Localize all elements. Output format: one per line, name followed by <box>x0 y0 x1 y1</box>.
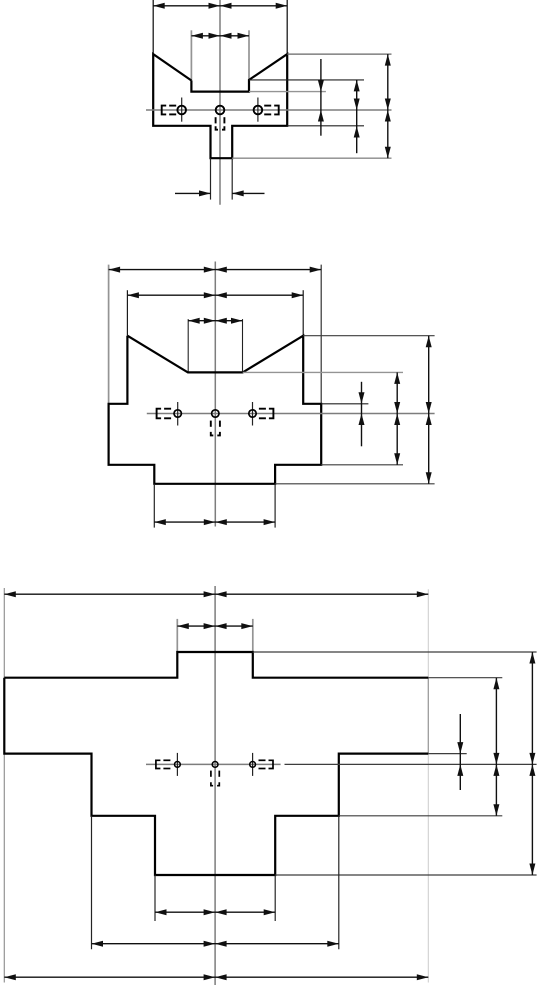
figure 2 ear top extension line right <box>303 335 434 337</box>
figure 2 right hole <box>249 410 256 417</box>
figure 2 center hole <box>212 410 219 417</box>
figure 3 step extension line right below <box>338 816 340 949</box>
figure 2 lower step extension line right <box>321 464 403 466</box>
figure 3 overall width dimension bottom <box>4 976 428 978</box>
figure 1 tab bottom extension line right <box>232 157 391 159</box>
figure 1 bottom edge extension line right <box>287 125 364 127</box>
figure 2 left hole vertical centerline <box>177 402 179 426</box>
figure 2 depth dimension ear-to-holes and holes-to-tab-bottom <box>428 336 430 484</box>
figure 2 bottom tab width dimension <box>154 521 275 523</box>
figure 3 step extension line right <box>428 753 466 755</box>
figure 2 notch gauge dimension extension line right <box>242 319 244 371</box>
figure 2 right hidden slot <box>269 409 274 419</box>
figure 3 boss width dimension extension line left <box>176 619 178 652</box>
figure 3 left extension line full height <box>3 588 5 678</box>
figure 1 top width dimension <box>153 5 287 7</box>
figure 1 right hole <box>254 106 263 115</box>
figure 3 top surface extension line right <box>428 677 502 679</box>
figure 3 mid step extension line right <box>339 815 503 817</box>
figure 2 bottom tab extension line left <box>153 484 155 528</box>
figure 1 centerline <box>219 0 221 205</box>
figure 3 hole centerline horizontal left part <box>146 763 281 765</box>
figure 2 overall width dimension <box>109 269 322 271</box>
figure 1 top width dimension extension line right <box>286 0 288 54</box>
figure 1 tab width extension line right <box>231 158 233 199</box>
figure 3 center hole <box>212 762 218 768</box>
figure 2 ear width dimension extension line right <box>302 290 304 336</box>
figure 1 notch ledge extension line right <box>249 79 364 81</box>
figure 3 tab extension line right below <box>274 875 276 921</box>
figure 2 ear width dimension extension line left <box>126 290 128 336</box>
figure 3 left hole vertical centerline <box>176 753 178 776</box>
figure 2 depth dimension notch-to-holes and holes-to-lower-step <box>396 372 398 464</box>
figure 3 boss width dimension <box>177 625 253 627</box>
figure 3 right hidden slot <box>269 760 274 768</box>
figure 3 right hole <box>250 762 256 768</box>
figure 3 center hidden slot downward <box>210 771 212 777</box>
figure 3 depth dimension boss-to-holes and holes-to-bottom <box>531 652 533 875</box>
figure 2 step extension line right <box>321 403 368 405</box>
figure 2 tab bottom extension line right <box>275 483 435 485</box>
figure 1 right hidden slot <box>274 106 279 115</box>
figure 3 left hole <box>175 762 181 768</box>
figure 1 tab width dimension right arrow <box>232 192 264 194</box>
figure 1 top width dimension extension line left <box>152 0 154 54</box>
figure 2 notch bottom extension line right <box>243 371 403 373</box>
figure 2 notch gauge dimension extension line left <box>187 319 189 371</box>
figure 1 left hole vertical centerline <box>181 98 183 122</box>
figure 2 ear width dimension <box>127 294 303 296</box>
figure 1 top edge extension line right <box>287 53 391 55</box>
figure 1 depth dimension top-to-holes and holes-to-tab-bottom <box>387 54 389 158</box>
figure 1 part outline <box>153 54 287 158</box>
figure 2 part outline <box>109 336 322 484</box>
figure 2 overall width dimension extension line right <box>320 265 322 404</box>
figure 1 center hole <box>216 106 225 115</box>
figure 2 left hole <box>174 410 181 417</box>
figure 2 notch gauge dimension <box>188 320 242 322</box>
figure 2 centerline <box>214 262 216 527</box>
figure 3 step width dimension <box>92 943 339 945</box>
figure 1 notch bottom extension line right <box>249 91 326 93</box>
figure 3 depth dimension step-to-holes (outside arrows) <box>459 714 461 790</box>
figure 2 right hole vertical centerline <box>252 402 254 426</box>
figure 1 right hole vertical centerline <box>257 98 259 122</box>
figure 1 depth dimension ledge-to-holes and holes-to-bottom <box>356 80 358 153</box>
figure 3 tab width dimension <box>155 911 275 913</box>
figure 2 hole centerline horizontal <box>147 413 435 415</box>
figure 2 center hidden slot downward <box>210 421 212 427</box>
figure 1 depth dimension notch-to-holes (outside arrows) <box>320 59 322 136</box>
figure 3 tab extension line left below <box>154 875 156 921</box>
figure 1 left hole <box>177 106 186 115</box>
figure 1 notch width dimension <box>191 35 249 37</box>
figure 3 right edge thin <box>427 678 429 754</box>
figure 3 step extension line left below <box>91 816 93 949</box>
figure 3 right faint extension line full height <box>427 589 429 982</box>
figure 3 right hole vertical centerline <box>252 753 254 776</box>
figure 3 hole centerline horizontal right part <box>285 763 537 765</box>
figure 1 tab width extension line left <box>210 158 212 199</box>
figure 1 notch width dimension extension line left <box>190 30 192 80</box>
figure 3 boss top extension line right <box>253 651 537 653</box>
figure 1 notch width dimension extension line right <box>248 30 250 80</box>
figure 2 depth dimension step-to-holes (outside arrows) <box>361 382 363 447</box>
figure 3 depth dimension top-to-holes and holes-to-midstep <box>495 678 497 816</box>
figure 3 boss width dimension extension line right <box>252 619 254 652</box>
figure 2 bottom tab extension line right <box>274 484 276 528</box>
figure 2 overall width dimension extension line left <box>108 265 110 404</box>
figure 3 centerline <box>214 586 216 985</box>
figure 3 left hidden slot <box>156 760 161 768</box>
figure 1 center hidden slot downward <box>215 117 217 123</box>
figure 1 tab width dimension left arrow <box>175 192 211 194</box>
figure 3 overall width dimension top <box>4 593 428 595</box>
figure 3 part outline <box>4 652 428 678</box>
figure 3 bottom extension line right <box>275 874 536 876</box>
figure 2 left hidden slot <box>157 409 162 419</box>
figure 1 hole centerline horizontal <box>146 109 392 111</box>
figure 1 left hidden slot <box>162 106 167 115</box>
